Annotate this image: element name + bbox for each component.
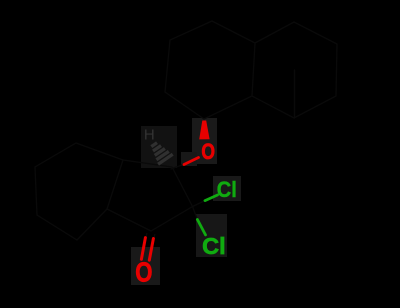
top cyclohexane ring (165, 21, 255, 119)
jpeg artifact halo around Cl2 and its bond (196, 214, 227, 257)
jpeg artifact halo around red wedge and ether O (192, 118, 217, 164)
jpeg artifact halo around H and hashed wedge (141, 126, 177, 168)
svg-text:Cl: Cl (217, 177, 237, 202)
carbonyl C1=O double bond red lines (141, 238, 153, 261)
svg-text:O: O (201, 139, 215, 164)
svg-text:H: H (144, 126, 155, 143)
cyclopentanone ring C3-C3a-C7a-C1-C2 (107, 160, 193, 231)
left cyclohexane ring (35, 143, 123, 240)
bond C2 to Cl1 dark half (193, 201, 206, 207)
faint extra vertical bond segment (294, 70, 296, 118)
fused right cyclohexane ring (252, 22, 337, 118)
bond C2 to Cl2 green half (197, 220, 205, 235)
bond C3 to ether O dark half (171, 164, 185, 169)
svg-text:Cl: Cl (202, 233, 226, 259)
svg-text:O: O (135, 257, 152, 288)
jpeg artifact halo around Cl1 (213, 176, 241, 201)
bond C2 to Cl1 green half (205, 195, 218, 201)
hashed wedge from H to C3 (151, 143, 172, 165)
solid red wedge from ring carbon down to ether O (199, 121, 209, 140)
bond C2 to Cl2 dark half (193, 207, 198, 220)
jpeg artifact halo around ketone O and double bond (131, 247, 160, 285)
jpeg artifact halo around C3-O red bond (181, 152, 197, 166)
carbonyl C1=O double bond dark stubs (146, 234, 155, 240)
bond C3 to ether O red half (184, 158, 199, 165)
